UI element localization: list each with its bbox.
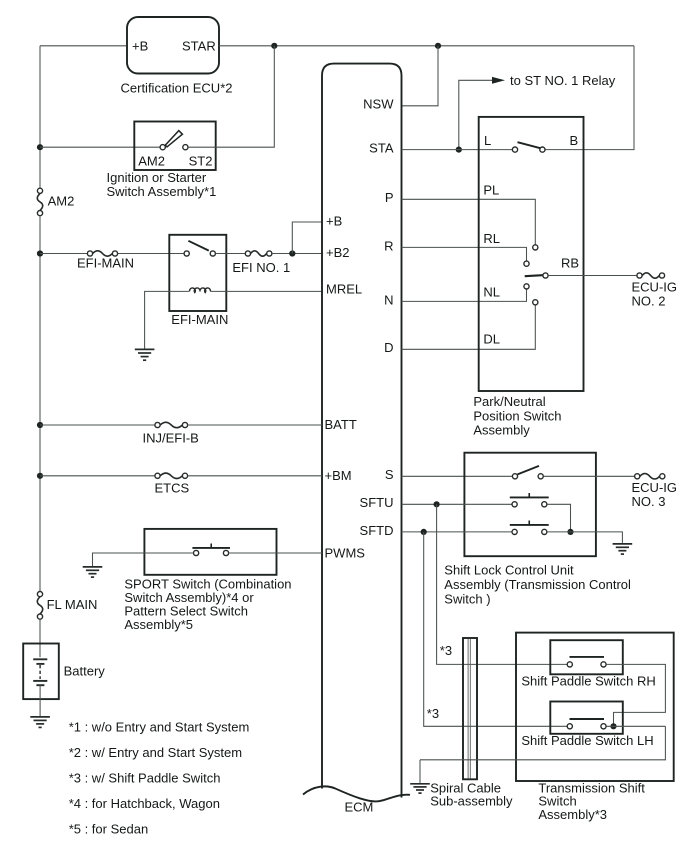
svg-text:+BM: +BM [325, 468, 352, 483]
svg-text:L: L [484, 133, 491, 148]
wire ST2 up to STAR net [188, 46, 274, 147]
component Shift Lock Control Unit box [464, 453, 596, 557]
component ECM outline [322, 64, 402, 798]
wire STA to L contact [402, 149, 513, 151]
wire SFTU drop to paddle RH [437, 504, 567, 664]
svg-text:Switch Assembly*1: Switch Assembly*1 [107, 184, 217, 199]
node junction +B/+B2 [289, 250, 295, 256]
component Shift Paddle Switch LH box [550, 702, 623, 734]
arrowhead to ST NO.1 relay [492, 77, 505, 84]
wire R to RL contact [402, 247, 527, 261]
battery dashed cells [39, 665, 41, 679]
svg-text:B: B [570, 133, 579, 148]
contact L [512, 147, 517, 152]
svg-text:NSW: NSW [363, 97, 394, 112]
fuse EFI-MAIN [87, 251, 92, 256]
wire fuse to BATT pin [188, 424, 322, 426]
component EFI-MAIN relay box [169, 235, 226, 311]
wire SPORT to PWMS pin [229, 552, 322, 554]
ground (shift lock) [613, 543, 633, 545]
wire SFTD row [402, 531, 512, 533]
contact AM2 (ignition switch) [160, 145, 165, 150]
fuse ECU-IG NO. 2 [637, 273, 642, 278]
svg-text:D: D [384, 340, 393, 355]
component Battery box [23, 644, 59, 700]
svg-text:*2 : w/ Entry and Start System: *2 : w/ Entry and Start System [69, 745, 242, 760]
svg-text:+B: +B [132, 38, 148, 53]
svg-text:N: N [384, 292, 393, 307]
wire left bus mid [39, 216, 41, 592]
svg-text:Shift Paddle Switch RH: Shift Paddle Switch RH [521, 674, 655, 689]
svg-text:Position Switch: Position Switch [473, 408, 561, 423]
contact SFTD right [542, 529, 547, 534]
svg-text:STA: STA [369, 141, 394, 156]
contact ST2 (ignition switch) [183, 145, 188, 150]
component Certification ECU box [127, 17, 219, 74]
ground (spiral cable) [410, 783, 430, 785]
push bar (SFTD switch) [510, 524, 549, 526]
fuse EFI NO. 1 [245, 251, 250, 256]
contact SFTD left [512, 529, 517, 534]
contact SFTU right [542, 502, 547, 507]
contact relay switch left [184, 251, 189, 256]
svg-text:to ST NO. 1 Relay: to ST NO. 1 Relay [510, 73, 616, 88]
node junction STA branch [456, 147, 462, 153]
switch blade (S) [518, 466, 540, 475]
svg-text:RB: RB [561, 256, 579, 271]
node junction STAR/ST2 [271, 43, 277, 49]
svg-text:EFI-MAIN: EFI-MAIN [171, 312, 228, 327]
node junction bus/EFI-MAIN [37, 250, 43, 256]
svg-text:AM2: AM2 [138, 154, 165, 169]
contact NL [524, 284, 529, 289]
svg-text:Sub-assembly: Sub-assembly [430, 794, 513, 809]
contact PL [533, 245, 538, 250]
svg-text:Battery: Battery [64, 664, 106, 679]
wire SFTD drop to paddle LH [424, 532, 567, 726]
svg-text:ETCS: ETCS [155, 481, 190, 496]
fuse ETCS [155, 473, 160, 478]
contact paddle LH right [601, 724, 606, 729]
contact paddle LH left [567, 724, 572, 729]
svg-text:R: R [384, 238, 393, 253]
svg-text:NL: NL [483, 285, 500, 300]
svg-text:DL: DL [483, 332, 500, 347]
svg-text:BATT: BATT [325, 417, 357, 432]
wire paddle LH to ground run [606, 725, 665, 727]
svg-text:ECM: ECM [345, 800, 374, 815]
svg-text:MREL: MREL [326, 282, 362, 297]
switch blade (EFI-MAIN relay) [188, 241, 208, 251]
svg-text:FL MAIN: FL MAIN [47, 597, 98, 612]
svg-text:+B: +B [326, 213, 342, 228]
svg-text:RL: RL [483, 231, 500, 246]
wire fuse to +BM pin [188, 475, 322, 477]
switch blade (ignition) [165, 131, 182, 147]
svg-text:EFI-MAIN: EFI-MAIN [77, 255, 134, 270]
component Shift Paddle Switch RH box [550, 640, 623, 674]
wire relay to EFI NO.1 fuse [215, 253, 245, 255]
svg-text:NO. 3: NO. 3 [632, 494, 666, 509]
node junction SFTD [421, 529, 427, 535]
wire bus to battery [39, 619, 41, 657]
push bar (paddle LH) [570, 718, 605, 720]
push bar (SPORT switch) [192, 547, 230, 549]
fuse INJ/EFI-B [155, 422, 160, 427]
svg-text:Assembly*5: Assembly*5 [124, 617, 193, 632]
node junction STAR/NSW [435, 43, 441, 49]
wire S to shift lock switch [402, 475, 513, 477]
ground (EFI-MAIN relay) [135, 348, 155, 350]
node junction SFTU [434, 501, 440, 507]
wire battery to ground [39, 685, 41, 716]
svg-text:STAR: STAR [182, 38, 216, 53]
wire paddle RH to LH common [606, 664, 665, 726]
contact SFTU left [512, 502, 517, 507]
ground (battery) [30, 716, 50, 718]
svg-text:*3: *3 [427, 706, 439, 721]
svg-text:Park/Neutral: Park/Neutral [473, 394, 545, 409]
svg-text:Assembly*3: Assembly*3 [538, 807, 607, 822]
svg-text:*3: *3 [440, 643, 452, 658]
contact paddle RH right [601, 662, 606, 667]
wire ground run [420, 726, 665, 760]
component Ignition or Starter Switch box [134, 122, 215, 171]
node junction bus/ignition [37, 144, 43, 150]
battery plate short 1 [36, 663, 44, 665]
svg-text:S: S [385, 467, 394, 482]
wire N to NL contact [402, 289, 527, 301]
svg-text:SFTD: SFTD [360, 523, 394, 538]
wire coil to ground [145, 291, 190, 348]
wire P to PL contact [402, 199, 536, 244]
wire EFI-MAIN fuse to relay [118, 253, 184, 255]
contact S right [538, 474, 543, 479]
svg-text:SFTU: SFTU [360, 495, 394, 510]
wire STAR output across top [219, 45, 634, 47]
contact RL [524, 261, 529, 266]
push bar (SFTU switch) [510, 496, 549, 498]
contact RB [543, 273, 548, 278]
node junction bus/ETCS [37, 473, 43, 479]
push bar (paddle RH) [570, 656, 605, 658]
svg-text:INJ/EFI-B: INJ/EFI-B [143, 430, 199, 445]
wire S to ECU-IG NO.3 fuse [543, 475, 634, 477]
svg-text:+B2: +B2 [326, 245, 350, 260]
wire SFTU switch to SFTD junction [547, 504, 571, 532]
svg-text:PL: PL [483, 183, 499, 198]
wire bus to EFI-MAIN fuse [40, 253, 87, 255]
svg-text:Shift Paddle Switch LH: Shift Paddle Switch LH [521, 733, 653, 748]
wire SFTD to ground [547, 532, 622, 543]
wire bus to ignition switch [40, 146, 160, 148]
wire right drop to B contact [545, 46, 634, 150]
svg-text:NO. 2: NO. 2 [632, 293, 666, 308]
wire SPORT to ground [93, 553, 194, 566]
ECM bottom break wave [303, 786, 410, 801]
node junction bus/BATT [37, 422, 43, 428]
svg-text:Switch ): Switch ) [444, 591, 490, 606]
fuse FL MAIN (fusible link) [37, 592, 42, 597]
wire top bus to Certification ECU +B [40, 45, 127, 47]
wire D to DL contact [402, 305, 536, 349]
contact paddle RH left [567, 662, 572, 667]
wire bus to INJ/EFI-B fuse [40, 424, 155, 426]
ground (SPORT switch) [83, 566, 103, 568]
component SPORT Switch box [144, 529, 276, 575]
wire RB to ECU-IG NO.2 fuse [548, 275, 637, 277]
contact S left [512, 474, 517, 479]
wire NSW to top junction [402, 46, 439, 106]
svg-text:PWMS: PWMS [325, 546, 366, 561]
svg-text:*5 : for Sedan: *5 : for Sedan [69, 821, 149, 836]
svg-text:ECU-IG: ECU-IG [632, 480, 678, 495]
fuse ECU-IG NO. 3 [635, 474, 640, 479]
node junction paddle common [610, 723, 616, 729]
svg-text:*4 : for Hatchback, Wagon: *4 : for Hatchback, Wagon [69, 796, 220, 811]
contact B-side [540, 147, 545, 152]
component Transmission Shift Switch Assembly box [516, 633, 674, 781]
svg-text:EFI NO. 1: EFI NO. 1 [232, 260, 290, 275]
battery plate long 2 [33, 680, 47, 682]
component Spiral Cable Sub-assembly [463, 638, 477, 779]
wire bus to ETCS fuse [40, 475, 155, 477]
svg-text:Certification ECU*2: Certification ECU*2 [121, 81, 233, 96]
svg-text:*1 : w/o Entry and Start Syste: *1 : w/o Entry and Start System [69, 719, 250, 734]
coil EFI-MAIN relay [190, 288, 211, 293]
switch blade (L-B) [518, 142, 541, 148]
svg-text:Assembly (Transmission Control: Assembly (Transmission Control [444, 577, 631, 592]
battery plate long 1 [33, 658, 47, 660]
wire fuse to +B2 pin [272, 253, 322, 255]
battery plate short 2 [36, 684, 44, 686]
wire left bus upper [39, 46, 41, 188]
wire spiral cable ground [419, 760, 421, 783]
svg-text:Ignition or Starter: Ignition or Starter [107, 170, 207, 185]
fuse AM2 (fusible link) [37, 188, 42, 193]
contact relay switch right [210, 251, 215, 256]
svg-text:Assembly: Assembly [473, 423, 530, 438]
svg-text:Shift Lock Control Unit: Shift Lock Control Unit [444, 562, 574, 577]
contact DL [533, 300, 538, 305]
component Park/Neutral Position Switch box [479, 117, 584, 391]
contact SPORT right [223, 550, 228, 555]
svg-text:*3 : w/ Shift Paddle Switch: *3 : w/ Shift Paddle Switch [69, 770, 221, 785]
contact SPORT left [194, 550, 199, 555]
svg-text:ST2: ST2 [189, 154, 213, 169]
node junction SFTU/SFTD common [567, 529, 573, 535]
wire STA branch to ST NO.1 relay [459, 80, 492, 149]
svg-text:AM2: AM2 [48, 194, 75, 209]
switch blade RB [525, 275, 543, 276]
svg-text:P: P [385, 190, 394, 205]
wire SFTU row [402, 503, 512, 505]
wire MREL pin [210, 290, 322, 292]
wire junction up to +B pin [292, 222, 322, 254]
svg-text:ECU-IG: ECU-IG [632, 279, 678, 294]
